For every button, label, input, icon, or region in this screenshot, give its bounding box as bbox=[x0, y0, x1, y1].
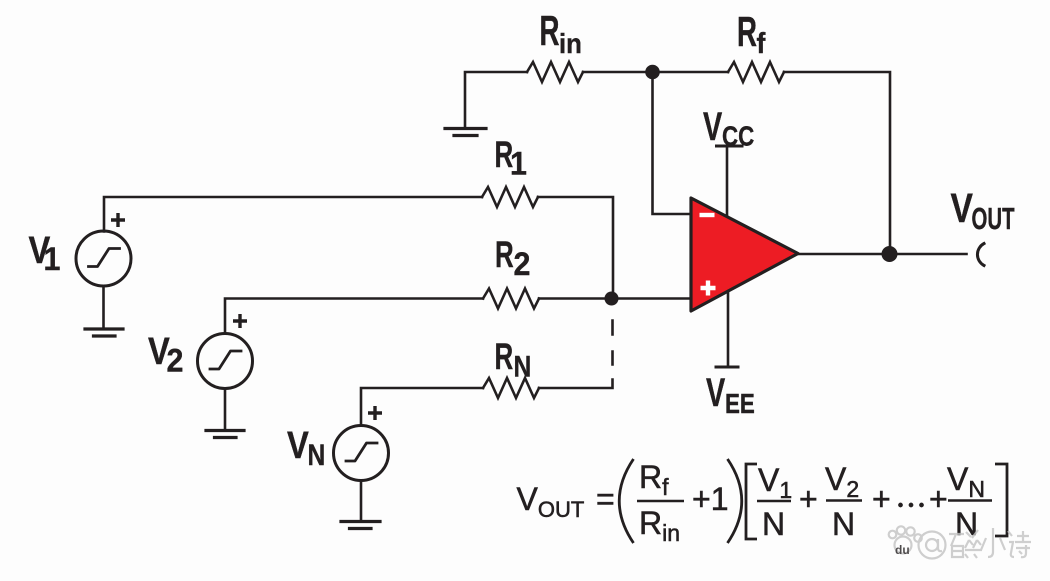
svg-text:N: N bbox=[955, 506, 978, 542]
svg-text:2: 2 bbox=[514, 246, 531, 282]
svg-text:OUT: OUT bbox=[972, 203, 1015, 236]
svg-text:+: + bbox=[799, 481, 818, 517]
svg-text:+: + bbox=[872, 481, 891, 517]
svg-text:R: R bbox=[495, 335, 514, 377]
svg-text:N: N bbox=[762, 506, 785, 542]
svg-text:+: + bbox=[929, 481, 948, 517]
svg-text:=: = bbox=[596, 481, 615, 517]
svg-text:N: N bbox=[832, 506, 855, 542]
svg-text:R: R bbox=[737, 8, 757, 55]
svg-text:CC: CC bbox=[722, 121, 754, 152]
svg-text:2: 2 bbox=[167, 343, 184, 379]
svg-text:1: 1 bbox=[44, 241, 61, 277]
svg-text:1: 1 bbox=[510, 146, 527, 182]
svg-text:du: du bbox=[895, 543, 910, 557]
svg-text:in: in bbox=[559, 28, 582, 59]
svg-text:V: V bbox=[703, 104, 722, 149]
svg-text:V: V bbox=[706, 370, 725, 415]
svg-text:N: N bbox=[514, 349, 532, 383]
svg-text:+1: +1 bbox=[692, 481, 728, 517]
svg-text:R: R bbox=[495, 233, 514, 275]
svg-text:EE: EE bbox=[725, 389, 755, 420]
svg-text:f: f bbox=[757, 27, 767, 59]
svg-text:R: R bbox=[540, 7, 560, 54]
svg-text:V: V bbox=[287, 424, 309, 467]
svg-text:N: N bbox=[308, 438, 326, 472]
svg-text:V: V bbox=[951, 185, 973, 231]
